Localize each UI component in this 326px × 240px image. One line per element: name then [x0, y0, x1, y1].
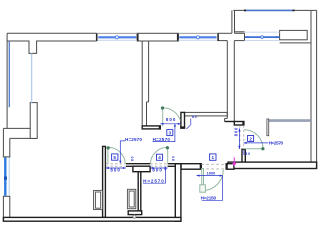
dim door2 800 vertical	[238, 128, 240, 149]
svg-text:H=2570: H=2570	[125, 137, 142, 142]
svg-text:1000: 1000	[207, 172, 216, 176]
corridor wall over bathrooms: segment between door5 and door4	[126, 163, 150, 165]
svg-text:80: 80	[130, 156, 134, 161]
door 3 jamb	[181, 112, 185, 128]
leader H2570 t3 underline	[143, 167, 165, 183]
window 3 balcony-room2 (x244-280)	[245, 32, 280, 40]
partition wall between room5 and room4	[138, 172, 141, 211]
door 4 arc	[150, 147, 167, 164]
svg-text:H=2150: H=2150	[201, 196, 217, 201]
svg-text:5: 5	[113, 155, 116, 160]
entrance opening dashes	[201, 164, 226, 169]
window west (living room)	[4, 158, 9, 196]
leader H2570 t2 underline	[153, 124, 175, 141]
tick door2 below	[243, 150, 245, 155]
svg-text:H=2570: H=2570	[143, 179, 164, 184]
niche bar	[268, 119, 311, 122]
door hinge dots	[107, 106, 265, 150]
door 5 arc	[108, 147, 125, 164]
svg-text:80: 80	[172, 156, 176, 161]
wall block right of balcony window	[280, 30, 308, 39]
svg-text:1: 1	[212, 155, 215, 160]
box room 1	[210, 154, 216, 160]
door5 opening dashes	[106, 125, 244, 166]
fixture right (room5 side)	[127, 189, 135, 208]
door4 opening dashes	[150, 163, 167, 165]
wall west band upper part	[2, 128, 4, 157]
window glazing left balcony inner	[31, 53, 33, 102]
window 2 top (x178-217)	[178, 33, 218, 40]
box room 3	[167, 130, 173, 136]
low wall piece bottom of partition	[128, 211, 142, 215]
window glazing left balcony outer	[8, 41, 10, 107]
bold walls	[3, 112, 316, 221]
balcony parapet top line	[233, 9, 316, 11]
dim arrows	[106, 123, 247, 177]
wall step lower-left inner	[10, 137, 37, 139]
entrance right wall piece	[226, 164, 234, 170]
window balcony parapet blue segment	[244, 9, 295, 11]
svg-text:80: 80	[245, 152, 250, 156]
svg-text:H=2570: H=2570	[269, 141, 284, 146]
tick door3 right	[190, 119, 192, 126]
leader H2570 t1	[120, 141, 125, 163]
leader H2150 underline	[202, 176, 223, 201]
wall stub below door 2	[242, 149, 245, 162]
svg-text:800: 800	[233, 127, 238, 136]
door2 opening dashes	[239, 125, 241, 149]
wall kitchen east band to junction	[185, 112, 228, 116]
wall balcony left	[231, 10, 233, 33]
svg-text:800: 800	[166, 117, 176, 122]
wall west band lower part	[2, 196, 4, 217]
pillar bottom-left balcony	[30, 103, 37, 139]
corridor wall segment east of door4	[168, 163, 181, 165]
svg-text:800: 800	[152, 168, 162, 173]
wall step lower-left outer	[3, 127, 30, 129]
fixture left (living side)	[94, 189, 136, 209]
dim door5 800	[106, 167, 126, 169]
wall stub above door 2	[234, 122, 244, 126]
box room 2	[248, 136, 254, 142]
wall top-left exterior band with notch	[7, 32, 97, 34]
room number boxes	[112, 130, 254, 161]
wall right exterior double	[310, 11, 312, 162]
niche side	[267, 119, 269, 136]
texts	[110, 115, 283, 201]
box room 5	[112, 154, 118, 160]
dim door3 800	[160, 123, 181, 125]
bathroom east wall	[175, 164, 181, 222]
svg-text:80: 80	[192, 115, 197, 119]
dim entrance 1000	[197, 175, 223, 177]
svg-text:4: 4	[158, 155, 161, 160]
corridor south wall west of entrance	[181, 164, 201, 170]
svg-text:3: 3	[169, 130, 172, 135]
plumbing circle	[133, 215, 136, 218]
leader H2570 room2 arrow line	[244, 142, 268, 144]
room 2 bottom wall band	[228, 162, 317, 168]
svg-text:2: 2	[249, 136, 252, 141]
wall kitchen south band	[142, 126, 160, 129]
window jamb end caps top wall	[97, 33, 218, 41]
svg-text:800: 800	[110, 168, 120, 173]
door 2 arc	[244, 130, 263, 149]
wall left exterior upper	[6, 33, 8, 128]
bottom exterior wall	[3, 217, 181, 221]
door 3 arc	[163, 108, 181, 121]
window 1 top (x97-137)	[97, 33, 138, 40]
wall top-middle band	[137, 33, 179, 41]
dim door4 800	[150, 167, 167, 169]
box room 4	[157, 154, 163, 160]
svg-text:H=2570: H=2570	[153, 137, 171, 142]
wall kitchen-corridor north-south	[226, 41, 228, 119]
shaft box between bathrooms	[133, 166, 150, 172]
door 1 arc (entrance)	[203, 170, 224, 191]
wall top-right band (split at cross junction)	[217, 32, 232, 34]
wall kitchen west	[141, 41, 143, 126]
bathroom west wall	[103, 146, 106, 217]
